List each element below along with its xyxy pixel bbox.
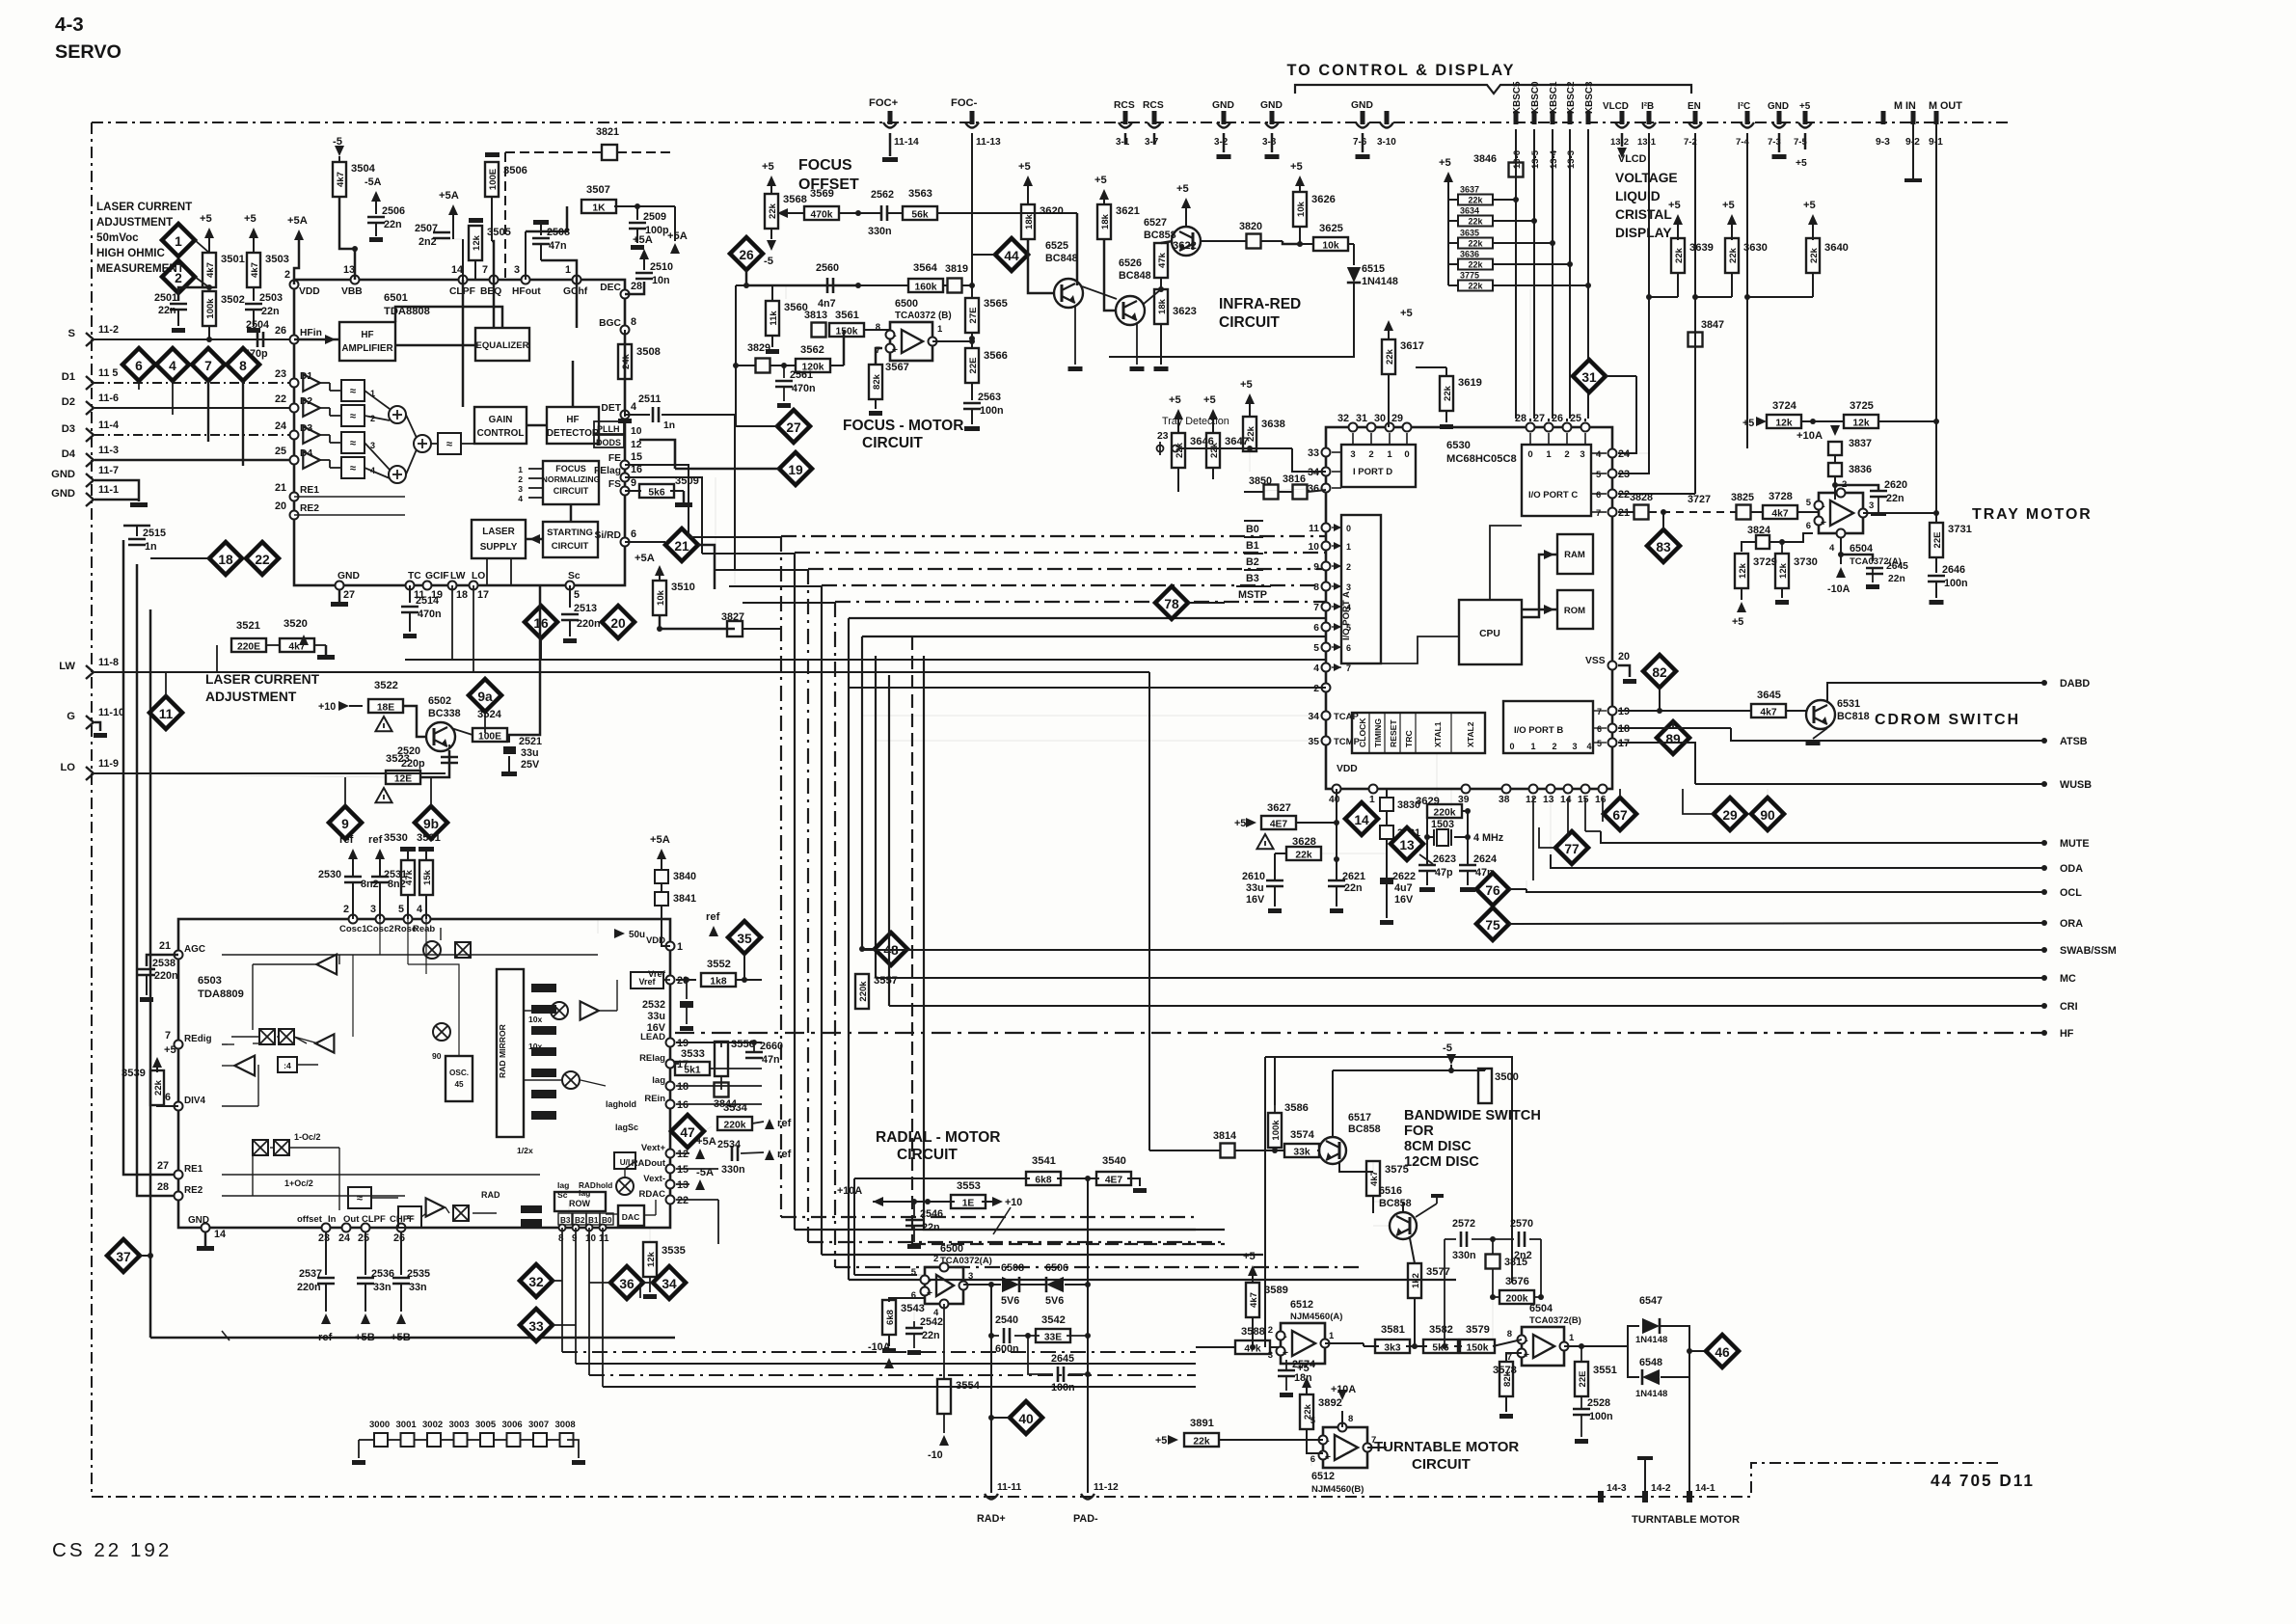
wire HF AMPLIFIER to EQUALIZER xyxy=(395,344,475,347)
svg-text:+5A: +5A xyxy=(287,215,308,227)
wire D4 row xyxy=(95,459,294,462)
svg-text:BGC: BGC xyxy=(599,318,621,329)
svg-text:2510: 2510 xyxy=(650,261,673,273)
svg-text:-5: -5 xyxy=(764,256,773,267)
svg-text:3520: 3520 xyxy=(284,618,308,630)
svg-text:+10: +10 xyxy=(1005,1197,1022,1208)
svg-text:TURNTABLE MOTOR: TURNTABLE MOTOR xyxy=(1632,1514,1740,1526)
svg-text:27: 27 xyxy=(786,420,801,435)
pins TCAP TCMP xyxy=(1322,684,1331,692)
svg-text:76: 76 xyxy=(1485,883,1500,898)
wire BEQ down xyxy=(493,280,496,328)
diamond 20 xyxy=(602,606,635,638)
svg-text:6501: 6501 xyxy=(384,292,408,304)
svg-text:4E7: 4E7 xyxy=(1270,820,1288,830)
ground 3520 xyxy=(325,645,328,655)
wire 3830/3831 vertical xyxy=(1386,789,1388,798)
amplifier D3 input xyxy=(303,426,320,444)
resistor 3830 xyxy=(1380,798,1393,811)
svg-text:In: In xyxy=(328,1214,337,1225)
diamond 4 xyxy=(156,348,189,381)
svg-text:3837: 3837 xyxy=(1849,438,1872,449)
wire 6504B out xyxy=(1564,1345,1628,1347)
pin RElag wire xyxy=(710,1068,762,1069)
wire KBSC ladder bus xyxy=(1447,182,1449,285)
svg-text:3824: 3824 xyxy=(1747,525,1770,536)
wire 3586 top xyxy=(1274,1057,1276,1105)
svg-text:LASER: LASER xyxy=(482,527,514,537)
svg-text:TDA8809: TDA8809 xyxy=(198,988,244,1000)
wire 89 stem xyxy=(1672,721,1674,728)
svg-text:150k: 150k xyxy=(836,327,858,338)
svg-text:1: 1 xyxy=(1530,742,1535,751)
svg-text:22: 22 xyxy=(255,553,270,567)
svg-text:RADout: RADout xyxy=(632,1158,666,1169)
svg-text:8: 8 xyxy=(1348,1414,1353,1424)
capacitor 2508 47n xyxy=(533,220,549,225)
svg-text:34: 34 xyxy=(1309,712,1320,722)
svg-text:47p: 47p xyxy=(1435,867,1453,879)
svg-text:+5: +5 xyxy=(1094,175,1107,186)
resistor 3619 22k xyxy=(1440,376,1453,411)
svg-text:3501: 3501 xyxy=(221,254,245,265)
wire 35 stem xyxy=(743,954,745,980)
svg-text:7: 7 xyxy=(1313,603,1319,613)
capacitor 2515 xyxy=(136,526,138,536)
svg-text:2646: 2646 xyxy=(1942,564,1965,576)
svg-text:10n: 10n xyxy=(652,275,670,286)
resistor 3504 4k7 xyxy=(338,156,340,162)
supply +5 (3589) xyxy=(1248,1265,1257,1276)
supply +5 (3647) xyxy=(1208,409,1218,420)
opamp 6504 TCA0372(A) tray xyxy=(1819,493,1863,533)
svg-text:13: 13 xyxy=(1543,795,1554,805)
wire 19 stem xyxy=(675,468,779,471)
svg-text:TURNTABLE MOTOR: TURNTABLE MOTOR xyxy=(1374,1439,1519,1455)
svg-text:31: 31 xyxy=(1581,370,1597,385)
pin 5 (Sc) U6501 xyxy=(566,582,575,590)
svg-text:220n: 220n xyxy=(154,970,178,982)
supply -10A (tray) xyxy=(1836,567,1846,578)
svg-text:3: 3 xyxy=(370,904,376,915)
svg-text:22k: 22k xyxy=(1246,425,1256,442)
diamond 13 xyxy=(1391,827,1423,860)
svg-text:+: + xyxy=(927,1288,932,1299)
svg-text:+5A: +5A xyxy=(635,553,655,564)
svg-text:OCL: OCL xyxy=(2060,887,2082,899)
svg-text:+5: +5 xyxy=(1169,394,1181,406)
supply +5 (3640) xyxy=(1808,214,1818,225)
svg-text:46: 46 xyxy=(1715,1345,1730,1360)
svg-text:24: 24 xyxy=(338,1232,350,1244)
svg-text:KBSC1: KBSC1 xyxy=(1549,81,1559,114)
wire PAD- vertical xyxy=(1087,1178,1089,1493)
svg-text:14: 14 xyxy=(1354,813,1369,827)
svg-text:3531: 3531 xyxy=(417,832,441,844)
resistor 3623 18k xyxy=(1154,289,1168,324)
svg-text:3586: 3586 xyxy=(1284,1102,1309,1114)
svg-text:2: 2 xyxy=(370,414,375,423)
svg-text:22k: 22k xyxy=(1674,247,1685,263)
svg-text:+10: +10 xyxy=(318,701,336,713)
svg-text:8: 8 xyxy=(558,1233,564,1244)
wire 6516 collector xyxy=(1402,1202,1404,1212)
svg-text:10k: 10k xyxy=(1322,241,1338,252)
svg-text:67: 67 xyxy=(1612,808,1628,823)
svg-text:6500: 6500 xyxy=(895,298,918,310)
supply +5A (2507) xyxy=(448,204,458,215)
internal xbox row2 xyxy=(253,1140,268,1155)
svg-text:21: 21 xyxy=(275,482,286,494)
svg-text:3567: 3567 xyxy=(885,362,909,373)
resistor 3543 6k8 xyxy=(888,1298,890,1302)
svg-text:laghold: laghold xyxy=(606,1099,636,1109)
internal wavy boxes xyxy=(348,1187,371,1208)
pins right TDA8809 xyxy=(666,942,675,951)
svg-text:22k: 22k xyxy=(1443,385,1453,401)
svg-text:6516: 6516 xyxy=(1379,1185,1402,1197)
svg-text:2660: 2660 xyxy=(760,1041,783,1052)
svg-text:28: 28 xyxy=(631,281,642,292)
svg-text:1: 1 xyxy=(1546,449,1552,460)
wire 3621 to base 6526 xyxy=(1104,239,1117,311)
wire 3522 to base xyxy=(403,706,426,737)
svg-text:32: 32 xyxy=(1337,413,1349,424)
wire portB17 right xyxy=(1618,743,1695,784)
diamond 29 xyxy=(1714,798,1746,830)
svg-text:1: 1 xyxy=(677,941,683,953)
wire 3524 out xyxy=(507,585,540,735)
svg-text:lag: lag xyxy=(557,1180,569,1190)
svg-text:3775: 3775 xyxy=(1460,271,1479,281)
svg-text:220k: 220k xyxy=(724,1121,746,1131)
chain right end xyxy=(567,1440,579,1458)
wire SWAB/SSM long xyxy=(862,949,2044,951)
wire +5A to pin2 xyxy=(294,240,299,284)
svg-text:7: 7 xyxy=(482,264,488,276)
svg-text:3729: 3729 xyxy=(1753,556,1777,568)
svg-text:ATSB: ATSB xyxy=(2060,736,2088,747)
svg-text:2503: 2503 xyxy=(259,292,283,304)
wire HFin to HF AMPLIFIER xyxy=(294,338,339,341)
svg-text:6548: 6548 xyxy=(1639,1357,1662,1368)
pin 21 (RE1) U6501 xyxy=(290,493,299,501)
svg-text:6502: 6502 xyxy=(428,695,451,707)
svg-text:29: 29 xyxy=(1391,413,1403,424)
svg-text:22k: 22k xyxy=(1728,247,1739,263)
svg-text:ref: ref xyxy=(368,834,383,846)
svg-text:12CM DISC: 12CM DISC xyxy=(1404,1154,1479,1170)
svg-text:GND: GND xyxy=(338,571,360,582)
wire FOC+ stub xyxy=(889,133,892,156)
resistor 3554 xyxy=(937,1379,951,1414)
bus vertical bundle xyxy=(780,536,782,1217)
resistor 3566 22E xyxy=(965,348,979,383)
svg-text:NJM4560(A): NJM4560(A) xyxy=(1290,1312,1342,1322)
svg-text:ref: ref xyxy=(777,1118,792,1129)
svg-text:82: 82 xyxy=(1652,665,1667,680)
diamond 82 xyxy=(1643,655,1676,688)
svg-text:VDD: VDD xyxy=(646,935,665,946)
svg-text:KBSC2: KBSC2 xyxy=(1566,81,1577,114)
svg-text:+5: +5 xyxy=(1234,818,1246,829)
svg-text:RCS: RCS xyxy=(1143,100,1164,111)
wire 3820 to 3625 xyxy=(1261,240,1283,242)
svg-text:BC858: BC858 xyxy=(1379,1198,1412,1209)
svg-text:12k: 12k xyxy=(1775,419,1792,429)
diamond 48 xyxy=(875,933,907,965)
wire 9b stem xyxy=(430,777,432,806)
svg-text:SUPPLY: SUPPLY xyxy=(480,542,518,553)
svg-text:3007: 3007 xyxy=(528,1420,549,1430)
resistor 3510 10k xyxy=(659,570,661,580)
resistor 3579 150k xyxy=(1460,1340,1495,1353)
wire portB bottom downs xyxy=(1532,798,1534,880)
svg-text:11-11: 11-11 xyxy=(997,1482,1021,1493)
resistor 3556 xyxy=(715,1042,728,1076)
svg-text:1n: 1n xyxy=(663,420,675,431)
resistor 3645 4k7 xyxy=(1751,704,1786,717)
svg-text:2538: 2538 xyxy=(152,958,176,969)
wire CRI long xyxy=(888,675,890,1006)
svg-text:16: 16 xyxy=(677,1099,689,1111)
svg-text:-5: -5 xyxy=(333,136,342,148)
svg-text:3000: 3000 xyxy=(369,1420,390,1430)
svg-text:lagSc: lagSc xyxy=(615,1123,638,1132)
svg-text:22k: 22k xyxy=(1468,260,1483,270)
svg-text:23: 23 xyxy=(1157,431,1169,442)
svg-text:22: 22 xyxy=(677,1195,689,1206)
svg-text:13-2: 13-2 xyxy=(1610,137,1629,148)
pin 16 (FElag) U6501 xyxy=(621,474,630,482)
svg-text:+: + xyxy=(1325,1452,1331,1463)
svg-text:6: 6 xyxy=(911,1290,916,1301)
svg-text:TO CONTROL & DISPLAY: TO CONTROL & DISPLAY xyxy=(1287,62,1516,79)
wire VDD down xyxy=(1336,789,1337,873)
svg-text:3008: 3008 xyxy=(555,1420,576,1430)
svg-text:-: - xyxy=(928,1276,932,1286)
svg-text:1: 1 xyxy=(1569,1333,1575,1343)
svg-text:+5: +5 xyxy=(244,213,257,225)
svg-text:18: 18 xyxy=(677,1081,689,1093)
resistor 3588 47k xyxy=(1196,1346,1236,1348)
svg-text:+5B: +5B xyxy=(355,1332,375,1343)
svg-text:B2: B2 xyxy=(1246,556,1259,568)
svg-text:33: 33 xyxy=(528,1319,544,1334)
svg-text:2645: 2645 xyxy=(1051,1353,1074,1365)
svg-text:13: 13 xyxy=(1399,838,1415,853)
svg-text:LW: LW xyxy=(59,661,75,672)
svg-text:18k: 18k xyxy=(1100,213,1111,230)
svg-text:3505: 3505 xyxy=(487,227,511,238)
svg-text:4E7: 4E7 xyxy=(1105,1176,1123,1186)
capacitor 2538 220n xyxy=(147,955,178,966)
svg-text:VOLTAGE: VOLTAGE xyxy=(1615,171,1678,185)
diamond 32 xyxy=(520,1264,553,1297)
svg-text:35: 35 xyxy=(1309,737,1320,747)
wire 77 stem xyxy=(1539,827,1555,848)
ground GND rows xyxy=(130,502,148,507)
svg-text:11-9: 11-9 xyxy=(98,758,119,770)
svg-text:29: 29 xyxy=(1722,808,1738,823)
svg-text:220E: 220E xyxy=(237,642,260,653)
svg-text:2: 2 xyxy=(1368,449,1373,460)
svg-text:11-2: 11-2 xyxy=(98,324,119,336)
diamond 76 xyxy=(1476,873,1509,906)
svg-text:RAM: RAM xyxy=(1564,550,1585,560)
opamp 6504 TCA0372(B) turntable xyxy=(1522,1327,1564,1366)
svg-text:TRAY MOTOR: TRAY MOTOR xyxy=(1972,506,2093,523)
resistor 3814 xyxy=(1221,1144,1235,1158)
diamond 16 xyxy=(525,606,557,638)
svg-text:9: 9 xyxy=(341,817,349,831)
svg-text:1K: 1K xyxy=(592,203,606,214)
svg-text:22k: 22k xyxy=(153,1079,164,1096)
svg-text:3: 3 xyxy=(1350,449,1355,460)
svg-text:3: 3 xyxy=(1268,1350,1273,1361)
svg-text:3727: 3727 xyxy=(1688,494,1711,505)
svg-text:CIRCUIT: CIRCUIT xyxy=(862,435,923,451)
diamond 37 xyxy=(107,1239,140,1272)
svg-text:I/O PORT C: I/O PORT C xyxy=(1528,490,1578,501)
resistor 3551 22E xyxy=(1580,1346,1582,1362)
svg-text:3005: 3005 xyxy=(475,1420,497,1430)
svg-text:+5: +5 xyxy=(1297,1363,1310,1374)
svg-text:33: 33 xyxy=(1308,447,1319,459)
svg-text:LIQUID: LIQUID xyxy=(1615,189,1661,203)
resistor 3500 xyxy=(1450,1065,1452,1070)
supply +5 7-5 xyxy=(1804,133,1807,149)
svg-text:2513: 2513 xyxy=(574,603,597,614)
svg-text:3-7: 3-7 xyxy=(1145,137,1159,148)
svg-text:AMPLIFIER: AMPLIFIER xyxy=(341,343,392,354)
svg-text:10: 10 xyxy=(631,426,642,437)
wire 46 down to border xyxy=(1688,1351,1690,1493)
resistor 3813 xyxy=(812,323,826,338)
svg-text:13-5: 13-5 xyxy=(1530,149,1541,169)
svg-text::4: :4 xyxy=(284,1061,291,1070)
svg-text:470n: 470n xyxy=(792,383,816,394)
svg-text:35: 35 xyxy=(737,932,752,946)
svg-text:3829: 3829 xyxy=(747,342,770,354)
resistor 3847 xyxy=(1688,333,1703,347)
svg-text:7: 7 xyxy=(1597,707,1602,717)
diamond 46 xyxy=(1706,1335,1739,1367)
svg-text:22k: 22k xyxy=(1193,1437,1209,1448)
svg-text:18: 18 xyxy=(456,589,468,601)
svg-text:-10A: -10A xyxy=(868,1341,891,1353)
svg-text:3507: 3507 xyxy=(586,184,610,196)
svg-text:7-6: 7-6 xyxy=(1353,137,1367,148)
svg-text:2540: 2540 xyxy=(995,1314,1018,1326)
svg-text:2620: 2620 xyxy=(1884,479,1907,491)
svg-text:3891: 3891 xyxy=(1190,1418,1214,1429)
svg-text:offset: offset xyxy=(297,1214,323,1225)
svg-text:20: 20 xyxy=(275,501,286,512)
resistor 3574 33k xyxy=(1275,1150,1284,1151)
svg-text:1: 1 xyxy=(1387,449,1392,460)
svg-text:+5: +5 xyxy=(1243,1251,1256,1262)
svg-text:1: 1 xyxy=(565,264,571,276)
svg-text:2511: 2511 xyxy=(638,393,661,405)
svg-text:75: 75 xyxy=(1485,918,1500,933)
svg-text:LW: LW xyxy=(450,571,466,582)
wire 6517 collector xyxy=(1332,1070,1334,1137)
svg-text:16V: 16V xyxy=(1246,894,1265,906)
resistor 3819 xyxy=(948,279,962,293)
svg-text:33u: 33u xyxy=(647,1011,665,1022)
resistor 3586 100k xyxy=(1268,1113,1282,1148)
supply +5A (Vext+) xyxy=(676,1152,689,1154)
svg-text:2610: 2610 xyxy=(1242,871,1265,882)
transistor 6527 BC858 xyxy=(1172,227,1201,256)
svg-text:FOCUS: FOCUS xyxy=(555,464,586,474)
svg-text:12: 12 xyxy=(631,440,642,450)
svg-text:3553: 3553 xyxy=(957,1180,981,1192)
bandwide outline box xyxy=(1265,1057,1512,1283)
svg-text:34: 34 xyxy=(662,1277,677,1291)
wire diamond 4 stem xyxy=(172,381,174,415)
supply +10A (3837) xyxy=(1830,425,1840,436)
capacitor 2532 33u 16V xyxy=(686,980,688,995)
wire 2572 row join xyxy=(1444,1239,1445,1346)
wire KBSC to portC top xyxy=(1529,419,1531,421)
svg-text:160k: 160k xyxy=(915,283,937,293)
svg-text:2530: 2530 xyxy=(318,869,341,880)
svg-text:EN: EN xyxy=(1688,101,1701,112)
resistor 3820 xyxy=(1200,240,1246,242)
amplifier D4 input xyxy=(303,451,320,469)
wire 6515 down and left xyxy=(1109,283,1354,357)
svg-text:CPU: CPU xyxy=(1479,629,1500,639)
wire to diamond 18 xyxy=(150,557,209,559)
svg-text:HF: HF xyxy=(361,330,373,340)
svg-text:3506: 3506 xyxy=(503,165,527,176)
capacitor 2535 33n xyxy=(400,1232,402,1275)
svg-text:13-1: 13-1 xyxy=(1637,137,1657,148)
diamond 83 xyxy=(1647,529,1680,562)
svg-text:OSC.: OSC. xyxy=(449,1069,469,1077)
wire 6512B loop xyxy=(1311,1453,1323,1466)
svg-text:4: 4 xyxy=(417,904,422,915)
svg-text:100k: 100k xyxy=(1271,1120,1282,1141)
wire D3 row xyxy=(95,434,294,436)
svg-text:1: 1 xyxy=(518,465,523,474)
diamond 77 xyxy=(1555,831,1588,864)
block LASER SUPPLY xyxy=(472,520,526,558)
svg-text:CONTROL: CONTROL xyxy=(477,428,525,439)
svg-text:+10A: +10A xyxy=(1331,1384,1356,1395)
svg-text:NORMALIZING: NORMALIZING xyxy=(542,474,601,484)
svg-text:4k7: 4k7 xyxy=(250,262,260,278)
svg-text:3841: 3841 xyxy=(673,893,696,905)
svg-text:3588: 3588 xyxy=(1241,1326,1265,1338)
svg-text:3: 3 xyxy=(1572,742,1577,751)
svg-text:33E: 33E xyxy=(1044,1333,1062,1343)
svg-text:10: 10 xyxy=(1309,542,1320,553)
wire collector to 3524 xyxy=(451,728,473,735)
diamond 9a xyxy=(469,679,501,712)
block I/O PORT A xyxy=(1341,515,1381,663)
pin 10 (PLLH) U6501 xyxy=(594,421,624,434)
svg-text:D4: D4 xyxy=(62,448,76,460)
wire Si/RD to diamond 21 xyxy=(625,541,665,543)
internal mix rad1 xyxy=(551,1002,568,1019)
svg-text:4: 4 xyxy=(169,359,176,373)
svg-text:3003: 3003 xyxy=(449,1420,470,1430)
svg-text:11-13: 11-13 xyxy=(976,137,1001,148)
svg-text:3524: 3524 xyxy=(477,709,502,720)
